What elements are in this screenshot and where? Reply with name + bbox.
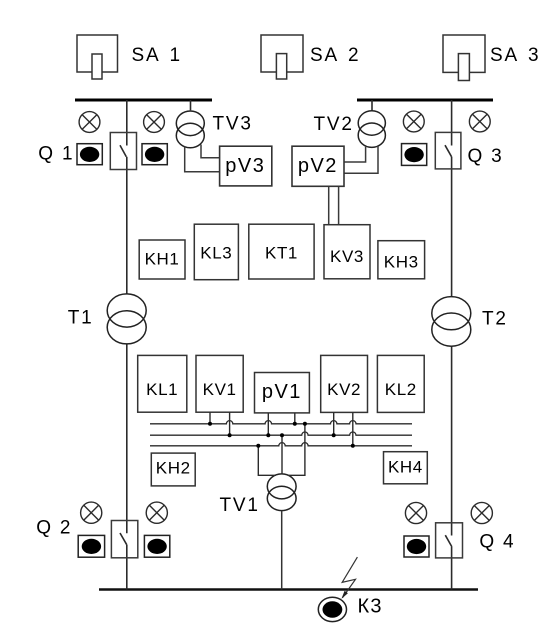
svg-text:T2: T2 [482, 309, 508, 330]
svg-text:KV2: KV2 [327, 380, 361, 399]
svg-text:К3: К3 [358, 596, 383, 618]
svg-text:KH4: KH4 [388, 458, 423, 477]
svg-text:KT1: KT1 [265, 244, 298, 263]
svg-text:TV2: TV2 [314, 114, 354, 135]
svg-text:Q 3: Q 3 [468, 146, 504, 167]
svg-text:KL3: KL3 [200, 244, 232, 263]
svg-text:T1: T1 [68, 308, 94, 329]
svg-text:Q 4: Q 4 [479, 532, 515, 553]
svg-text:TV3: TV3 [213, 114, 253, 135]
svg-text:KH1: KH1 [145, 250, 180, 269]
svg-text:pV2: pV2 [298, 155, 338, 177]
svg-text:pV3: pV3 [225, 155, 265, 177]
svg-text:Q 2: Q 2 [36, 518, 72, 539]
svg-text:KL1: KL1 [146, 380, 178, 399]
svg-text:pV1: pV1 [262, 381, 302, 403]
svg-text:SA 2: SA 2 [310, 45, 360, 66]
svg-text:SA 1: SA 1 [132, 45, 182, 66]
svg-text:KL2: KL2 [385, 380, 417, 399]
svg-text:SA 3: SA 3 [490, 45, 540, 66]
svg-text:TV1: TV1 [220, 495, 260, 516]
svg-text:KH2: KH2 [156, 459, 191, 478]
svg-text:KH3: KH3 [384, 253, 419, 272]
svg-text:Q 1: Q 1 [38, 144, 74, 165]
svg-text:KV1: KV1 [203, 380, 237, 399]
svg-text:KV3: KV3 [330, 247, 364, 266]
